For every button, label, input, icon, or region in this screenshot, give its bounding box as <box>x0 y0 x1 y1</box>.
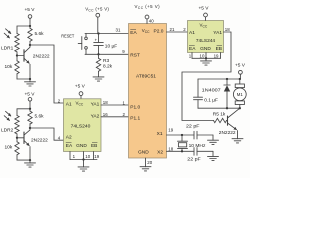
node ground junction cell2 <box>29 159 31 161</box>
capacitor 0.1uF <box>194 79 203 108</box>
svg-text:EA: EA <box>189 46 196 52</box>
node collector-divider top junction cell1 <box>29 25 31 27</box>
svg-text:X2: X2 <box>157 150 163 156</box>
node collector cell2 <box>29 127 31 129</box>
ground cell1 <box>25 79 36 86</box>
svg-text:GND: GND <box>138 150 149 156</box>
motor M1 <box>233 79 246 108</box>
capacitor 22pF top <box>194 131 213 140</box>
svg-text:+5 V: +5 V <box>235 62 246 68</box>
wire YA1 output to motor driver <box>182 32 231 121</box>
node diode top <box>226 78 228 80</box>
svg-text:22 pF: 22 pF <box>187 156 201 162</box>
wire ground rail cell1 <box>17 78 30 80</box>
svg-text:YA2: YA2 <box>91 114 100 120</box>
wire motor bottom rail <box>198 107 240 109</box>
wire P2.0 to 74LS244 A1 <box>167 31 188 33</box>
svg-text:1N4007: 1N4007 <box>202 87 221 93</box>
wire collector cell2 to 74LS240 A2 <box>30 128 64 140</box>
svg-text:2N2222: 2N2222 <box>31 137 48 143</box>
ground AT89C51 <box>140 167 151 171</box>
svg-text:EA: EA <box>130 30 137 36</box>
svg-text:RST: RST <box>130 53 140 59</box>
photoresistor LDR1 <box>4 29 19 56</box>
wire EA rail <box>85 33 129 35</box>
pin 10 stub 74LS244 <box>205 53 207 59</box>
svg-text:74LS244: 74LS244 <box>196 38 216 44</box>
svg-text:EB: EB <box>216 46 222 52</box>
svg-text:GND: GND <box>76 143 87 149</box>
svg-text:19: 19 <box>168 127 173 132</box>
transistor Q3 2N2222 <box>227 108 240 139</box>
node cap bottom junction <box>97 53 99 55</box>
ground 22pF top <box>208 140 219 144</box>
power terminal +5V motor <box>239 70 243 79</box>
ground R3 <box>93 77 104 81</box>
svg-text:10 µF: 10 µF <box>105 43 117 49</box>
pin 19 stub 74LS240 <box>93 152 95 160</box>
svg-text:10: 10 <box>200 54 205 59</box>
photoresistor LDR2 <box>4 111 19 138</box>
pin 1 stub 74LS240 <box>69 152 71 160</box>
svg-text:19: 19 <box>214 54 219 59</box>
wire collector cell1 to 74LS240 A1 <box>30 45 64 103</box>
svg-text:10 MHz: 10 MHz <box>189 143 206 149</box>
svg-text:8.2k: 8.2k <box>103 64 113 70</box>
svg-text:RESET: RESET <box>61 34 74 40</box>
wire YA1 to P1.0 <box>101 104 129 106</box>
node ground junction 74LS240 <box>82 158 84 160</box>
power terminal Vcc pin 40 <box>145 15 149 23</box>
node ground junction cell1 <box>29 78 31 80</box>
power terminal +5V cell2 <box>28 98 32 109</box>
wire YA2 to P1.1 <box>101 116 129 118</box>
svg-text:40: 40 <box>149 18 154 23</box>
transistor Q2 2N2222 <box>17 128 30 160</box>
resistor R3 8.2k <box>96 54 100 77</box>
svg-text:LDR2: LDR2 <box>1 128 14 134</box>
ground 22pF bottom <box>208 156 219 160</box>
svg-text:+5 V: +5 V <box>24 7 35 13</box>
svg-text:10k: 10k <box>5 64 13 70</box>
svg-text:A2: A2 <box>66 135 72 141</box>
node motor top <box>239 78 241 80</box>
svg-text:18: 18 <box>225 27 230 32</box>
resistor 5.6k cell2 <box>28 109 32 128</box>
svg-text:LDR1: LDR1 <box>1 46 14 52</box>
svg-text:19: 19 <box>94 154 99 159</box>
buffer U1 74LS244 body <box>188 21 224 53</box>
svg-text:AT89C51: AT89C51 <box>136 74 156 80</box>
resistor R5 1k <box>214 118 227 122</box>
wire to LDR2 top <box>17 109 30 116</box>
pushbutton RESET <box>78 34 87 55</box>
node LDR1-10k base junction <box>16 54 18 56</box>
svg-text:P2.0: P2.0 <box>154 28 164 34</box>
wire RST rail <box>85 53 129 55</box>
svg-text:M1: M1 <box>237 92 244 97</box>
ground cell2 <box>25 160 36 167</box>
svg-text:R3: R3 <box>103 58 109 64</box>
svg-text:16: 16 <box>103 112 108 117</box>
wire to LDR1 top <box>17 26 30 34</box>
pin 1 stub 74LS244 <box>191 53 193 59</box>
svg-text:X1: X1 <box>157 131 163 137</box>
resistor 5.6k cell1 <box>28 26 32 45</box>
label EA GND EB 74LS240 <box>66 142 98 148</box>
label pins 1 10 19 74LS244 <box>189 54 219 59</box>
power terminal +5V cell1 <box>28 15 32 26</box>
pin 10 stub 74LS240 <box>83 152 85 160</box>
svg-text:5.6k: 5.6k <box>35 31 45 37</box>
node ground junction 74LS244 <box>205 57 207 59</box>
wire ground rail 74LS240 <box>70 159 97 161</box>
buffer U2 74LS240 body <box>64 99 102 152</box>
resistor 10k cell2 <box>15 138 19 160</box>
svg-text:18: 18 <box>168 146 173 151</box>
label EA GND EB 74LS244 <box>189 45 222 51</box>
svg-text:EB: EB <box>91 143 97 149</box>
label pins 1 10 19 74LS240 <box>73 154 100 159</box>
svg-text:31: 31 <box>116 27 121 32</box>
ground 74LS244 <box>201 58 212 65</box>
power terminal Vcc reset rail <box>96 13 100 33</box>
svg-text:5.6k: 5.6k <box>35 113 45 119</box>
svg-text:P1.1: P1.1 <box>130 116 140 122</box>
svg-text:A1: A1 <box>66 101 72 107</box>
svg-text:GND: GND <box>200 46 211 52</box>
diode D1 1N4007 <box>224 79 230 108</box>
node LDR2-10k base junction <box>16 137 18 139</box>
svg-text:R5 1k: R5 1k <box>213 111 226 117</box>
ground 74LS240 <box>78 160 89 172</box>
node cap top junction <box>97 32 99 34</box>
capacitor 10uF <box>94 34 104 55</box>
microcontroller U3 AT89C51 body <box>129 24 167 159</box>
wire ground rail cell2 <box>17 159 30 161</box>
svg-text:2N2222: 2N2222 <box>33 53 50 59</box>
svg-text:10k: 10k <box>5 144 13 150</box>
svg-text:YA1: YA1 <box>91 101 100 107</box>
wire motor top rail <box>198 78 240 80</box>
crystal X 10MHz <box>167 134 195 153</box>
svg-text:EA: EA <box>66 143 73 149</box>
svg-text:22 pF: 22 pF <box>186 124 200 130</box>
svg-text:74LS240: 74LS240 <box>71 124 91 130</box>
svg-text:0.1 µF: 0.1 µF <box>204 98 218 104</box>
capacitor 22pF bottom <box>194 148 213 157</box>
svg-text:10: 10 <box>85 154 90 159</box>
svg-text:+5 V: +5 V <box>75 84 86 90</box>
pin 20 GND stub AT89C51 <box>145 158 147 167</box>
svg-text:+5 V: +5 V <box>198 5 209 11</box>
transistor Q1 2N2222 <box>17 45 30 79</box>
svg-text:A1: A1 <box>189 30 195 36</box>
resistor 10k cell1 <box>15 56 19 80</box>
ground Q3 emitter <box>232 139 243 143</box>
svg-text:18: 18 <box>103 100 108 105</box>
node motor bottom collector <box>239 107 241 109</box>
label EA AT89C51 <box>130 29 137 35</box>
wire ground rail 74LS244 <box>192 57 221 59</box>
svg-text:20: 20 <box>147 160 152 165</box>
svg-text:21: 21 <box>170 27 175 32</box>
pin 19 stub 74LS244 <box>220 53 222 59</box>
svg-text:2N2222: 2N2222 <box>219 130 236 136</box>
svg-text:+5 V: +5 V <box>24 91 35 97</box>
node divider top junction cell2 <box>29 108 31 110</box>
power terminal +5V 74LS244 <box>204 13 208 20</box>
node diode bottom <box>226 107 228 109</box>
node A collector cell1 <box>29 44 31 46</box>
svg-text:YA1: YA1 <box>213 30 222 36</box>
power terminal +5V 74LS240 <box>79 92 83 99</box>
svg-text:P1.0: P1.0 <box>130 104 140 110</box>
